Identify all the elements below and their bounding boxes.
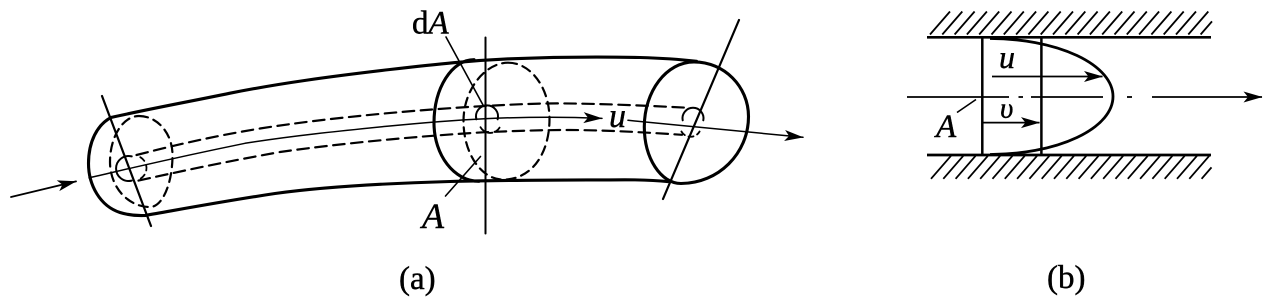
bottom wall line (927, 154, 1211, 157)
tube bottom edge (145, 180, 668, 216)
middle section solid ellipse (front half) (434, 60, 479, 182)
leader line for A label (b) (957, 100, 976, 113)
right stream tube small circle (dashed back arc) (681, 132, 699, 137)
svg-text:υ: υ (1000, 93, 1013, 125)
stream tube bottom dashed line (139, 130, 683, 181)
svg-text:u: u (999, 39, 1015, 75)
svg-text:A: A (934, 109, 957, 145)
streamline exit segment with arrow (628, 120, 803, 137)
bottom wall hatching (931, 156, 1212, 179)
mean velocity rectangle right side vertical (1040, 37, 1043, 155)
right stream tube small circle (solid front arc) (683, 108, 704, 121)
pipe centerline (dash-dot) with arrow (907, 96, 1262, 98)
svg-text:A: A (420, 196, 445, 236)
arrow v (b) (983, 122, 1040, 124)
left section slanted line (102, 96, 151, 226)
arrow u (b) (992, 76, 1103, 78)
tube left end cap (89, 118, 146, 216)
streamline with mid arrow (u) (89, 117, 602, 178)
section line A (left vertical) (981, 37, 984, 155)
wire incoming flow arrow (11, 181, 76, 197)
middle stream tube small circle dA (solid front arc) (476, 105, 498, 119)
left dashed section ellipse (110, 116, 173, 207)
right section slanted line (663, 20, 739, 199)
svg-text:u: u (609, 98, 626, 135)
left stream tube small circle (solid front arc) (116, 156, 132, 181)
leader line for A label (a) (446, 157, 481, 197)
right end ellipse (644, 62, 748, 184)
svg-text:(b): (b) (1047, 260, 1085, 296)
middle vertical section line (485, 38, 487, 234)
top wall hatching (930, 12, 1212, 35)
stream tube top dashed line (137, 103, 688, 155)
left stream tube small circle (dashed back arc) (140, 157, 146, 179)
middle stream tube small circle dA (dashed back arc) (481, 127, 500, 133)
tube top edge (111, 57, 697, 117)
svg-text:dA: dA (412, 6, 450, 42)
leader line for dA label (446, 37, 483, 105)
top wall line (927, 36, 1211, 39)
velocity profile parabola (990, 39, 1113, 155)
svg-text:(a): (a) (399, 261, 436, 297)
middle section dashed ellipse (back) (464, 63, 550, 180)
